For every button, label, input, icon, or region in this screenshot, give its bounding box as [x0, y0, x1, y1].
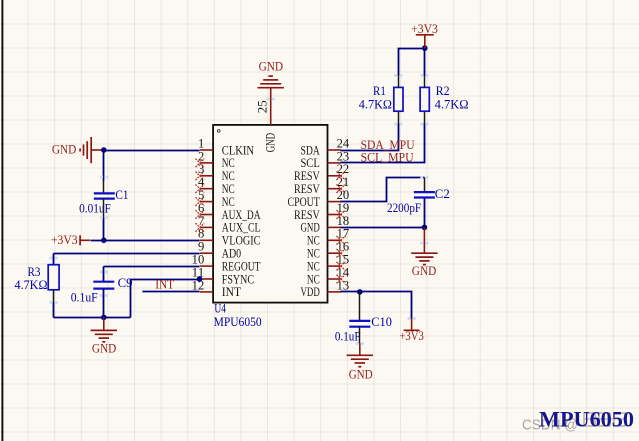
wire REGOUT pin 10 to C9 — [104, 267, 200, 282]
node junction VDD/C10 — [357, 289, 363, 295]
no-connect X pin 7 — [196, 223, 205, 232]
IC U4 MPU6050 body — [213, 125, 327, 303]
svg-text:C2: C2 — [435, 187, 450, 201]
pin name NC (pin 14) — [307, 271, 320, 286]
pin number 12 — [192, 278, 205, 292]
pin name NC (pin 3) — [222, 168, 235, 183]
value 0.01uF — [79, 201, 111, 215]
pin number 5 — [198, 188, 204, 202]
pin name RESV (pin 19) — [294, 207, 320, 222]
value 4.7KΩ (R3) — [15, 278, 48, 292]
pin number 2 — [198, 149, 204, 163]
pin name SDA (pin 24) — [300, 142, 320, 157]
net label GND (bottom center) — [349, 368, 373, 382]
wire GND pin 18 — [341, 227, 425, 229]
no-connect X pin 3 — [196, 172, 205, 181]
pin 9 stub — [200, 252, 213, 254]
pin name VLOGIC (pin 8) — [222, 233, 261, 248]
ground GND (bottom center) — [347, 355, 373, 366]
pin 16 stub — [328, 252, 341, 254]
svg-text:23: 23 — [337, 149, 350, 163]
net label +3V3 (top) — [411, 22, 438, 36]
value 0.1uF (C9) — [71, 290, 98, 304]
wire R2 top lead — [424, 49, 426, 88]
no-connect X pin 21 — [337, 184, 346, 193]
pin 8 stub — [200, 239, 213, 241]
svg-text:+3V3: +3V3 — [51, 233, 78, 247]
no-connect X pin 19 — [337, 210, 346, 219]
wire C2 bottom lead — [424, 199, 426, 228]
net label +3V3 (left) — [51, 233, 78, 247]
pin 3 stub — [200, 175, 213, 177]
power +3V3 (top) — [416, 35, 434, 48]
pin name GND (pin 18) — [300, 220, 319, 235]
pin number 7 — [198, 214, 204, 228]
net label INT — [155, 278, 174, 292]
wire SCL pin 23 — [341, 112, 425, 163]
no-connect X pin 5 — [196, 197, 205, 206]
designator R2 — [436, 84, 450, 98]
pin name AUX_CL (pin 7) — [222, 220, 261, 235]
pin name NC (pin 4) — [222, 181, 235, 196]
value 4.7KΩ (R2) — [435, 97, 469, 111]
svg-text:0.1uF: 0.1uF — [71, 290, 98, 304]
pin 21 stub — [328, 188, 341, 190]
pin number 25 (vertical) — [256, 100, 270, 113]
svg-text:GND: GND — [262, 133, 277, 152]
pin number 13 — [337, 278, 350, 292]
pin name NC (pin 15) — [307, 258, 320, 273]
pin 17 stub — [328, 239, 341, 241]
no-connect X pin 15 — [337, 262, 346, 271]
designator R1 — [373, 84, 386, 98]
pin 15 stub — [328, 265, 341, 267]
svg-text:+3V3: +3V3 — [399, 329, 423, 343]
svg-text:GND: GND — [349, 368, 373, 382]
wire pin1 CLKIN — [104, 150, 200, 152]
svg-text:0.1uF: 0.1uF — [335, 329, 361, 343]
wire INT pin 12 — [143, 291, 200, 293]
wire C1 top lead — [103, 151, 105, 194]
pin 7 stub — [200, 226, 213, 228]
no-connect X pin 14 — [337, 275, 346, 284]
pin number 4 — [198, 175, 205, 189]
svg-text:4.7KΩ: 4.7KΩ — [15, 278, 48, 292]
svg-text:4.7KΩ: 4.7KΩ — [359, 97, 392, 111]
svg-text:10: 10 — [192, 253, 205, 267]
value 0.1uF (C10) — [335, 329, 361, 343]
svg-text:24: 24 — [337, 136, 350, 150]
title MPU6050 — [539, 407, 634, 432]
net label +3V3 (bottom) — [399, 329, 423, 343]
node junction C2/GND — [422, 225, 428, 231]
node junction FSYNC — [197, 276, 203, 282]
pin number 8 — [198, 227, 204, 241]
pin number 1 — [198, 136, 204, 150]
pin 23 stub — [328, 162, 341, 164]
pin 6 stub — [200, 214, 213, 216]
pin 25 stub — [270, 88, 272, 125]
svg-text:C10: C10 — [371, 315, 392, 329]
svg-text:SCL_MPU: SCL_MPU — [361, 151, 414, 165]
svg-text:VDD: VDD — [300, 284, 319, 299]
svg-text:INT: INT — [155, 278, 174, 292]
svg-text:GND: GND — [52, 142, 76, 156]
wire ground rail — [54, 317, 131, 319]
pin number 22 — [337, 162, 350, 176]
value 4.7KΩ (R1) — [359, 97, 392, 111]
net label SCL_MPU — [361, 151, 414, 165]
capacitor C9 — [93, 282, 114, 289]
svg-text:+3V3: +3V3 — [411, 22, 438, 36]
pin number 23 — [337, 149, 350, 163]
no-connect X pin 2 — [196, 159, 205, 168]
no-connect X pin 22 — [337, 172, 346, 181]
ground GND (bottom left) — [103, 317, 105, 330]
node junction rail/C9 — [101, 315, 107, 321]
pin number 19 — [337, 201, 350, 215]
pin name NC (pin 5) — [222, 194, 235, 209]
pin number 16 — [337, 240, 350, 254]
wire FSYNC pin 11 — [131, 280, 200, 318]
svg-text:GND: GND — [412, 264, 437, 278]
pin name FSYNC (pin 11) — [222, 271, 254, 286]
ground GND (left, sideways) — [80, 137, 104, 163]
pin 13 stub — [328, 291, 341, 293]
designator R3 — [28, 265, 41, 279]
node junction C1/+3V3 — [101, 238, 107, 244]
svg-text:1: 1 — [198, 136, 204, 150]
svg-text:R1: R1 — [373, 84, 386, 98]
pin number 17 — [337, 227, 350, 241]
pin name SCL (pin 23) — [300, 155, 319, 170]
pin 22 stub — [328, 175, 341, 177]
pin number 9 — [198, 240, 204, 254]
pin name RESV (pin 21) — [294, 181, 320, 196]
pin 2 stub — [200, 162, 213, 164]
pin name CPOUT (pin 20) — [288, 194, 320, 209]
svg-text:MPU6050: MPU6050 — [539, 407, 634, 432]
pin number 6 — [198, 201, 204, 215]
pin 14 stub — [328, 278, 341, 280]
wire AD0 pin 9 to R3 — [54, 254, 200, 265]
wire C10 top lead — [359, 292, 361, 321]
pin name AD0 (pin 9) — [222, 246, 241, 261]
wire VLOGIC pin 8 — [91, 240, 200, 242]
pin number 18 — [337, 214, 350, 228]
net label GND (mid right) — [412, 264, 437, 278]
pin 18 stub — [328, 226, 341, 228]
wire C9 bottom lead — [103, 289, 105, 318]
power +3V3 (bottom) — [404, 318, 420, 330]
pin number 15 — [337, 253, 350, 267]
pin number 3 — [198, 162, 204, 176]
wire C10 bottom lead — [359, 327, 361, 356]
svg-text:2200pF: 2200pF — [387, 201, 421, 215]
designator C2 — [435, 187, 450, 201]
pin 10 stub — [200, 265, 213, 267]
svg-text:9: 9 — [198, 240, 204, 254]
no-connect X pin 6 — [196, 210, 205, 219]
pin name AUX_DA (pin 6) — [222, 207, 261, 222]
power +3V3 (left) — [80, 235, 90, 245]
svg-text:R2: R2 — [436, 84, 450, 98]
pin number 20 — [337, 188, 350, 202]
pin 24 stub — [328, 149, 341, 151]
designator C9 — [118, 276, 133, 290]
pin name NC (pin 17) — [307, 233, 320, 248]
ground GND (mid right) — [423, 227, 425, 253]
pin number 11 — [192, 265, 205, 279]
wire C1 bottom lead — [103, 199, 105, 241]
wire CPOUT pin 20 to C2 — [341, 178, 425, 202]
svg-text:MPU6050: MPU6050 — [214, 315, 262, 329]
no-connect X pin 17 — [337, 236, 346, 245]
pin name INT (pin 12) — [222, 284, 241, 299]
pin name NC (pin 2) — [222, 155, 235, 170]
pin 19 stub — [328, 214, 341, 216]
capacitor C10 — [349, 321, 370, 327]
svg-text:4.7KΩ: 4.7KΩ — [435, 97, 469, 111]
wire R1 top lead — [399, 49, 425, 88]
svg-text:GND: GND — [92, 341, 116, 355]
pin 20 stub — [328, 201, 341, 203]
pin 11 stub — [200, 278, 213, 280]
pin name VDD (pin 13) — [300, 284, 319, 299]
net label GND (bottom left) — [92, 341, 116, 355]
value 2200pF — [387, 201, 421, 215]
capacitor C1 — [94, 193, 115, 198]
designator C10 — [371, 315, 392, 329]
pin 12 stub — [200, 291, 213, 293]
designator U4 — [214, 301, 226, 315]
resistor R2 — [420, 87, 429, 111]
svg-text:INT: INT — [222, 284, 241, 299]
resistor R3 — [48, 265, 59, 290]
net label GND (left) — [52, 142, 76, 156]
pin name RESV (pin 22) — [294, 168, 320, 183]
pin name CLKIN (pin 1) — [222, 142, 255, 157]
watermark CSDN — [522, 413, 625, 433]
pin name GND (pin 25, vertical) — [262, 133, 277, 152]
pin number 14 — [337, 265, 350, 279]
no-connect X pin 16 — [337, 249, 346, 258]
pin 1 stub — [200, 149, 213, 151]
no-connect X pin 4 — [196, 184, 205, 193]
resistor R1 — [394, 87, 403, 111]
wire SDA pin 24 — [341, 112, 399, 151]
svg-text:C1: C1 — [115, 188, 128, 202]
pin name NC (pin 16) — [307, 246, 320, 261]
pin number 24 — [337, 136, 350, 150]
value MPU6050 — [214, 315, 262, 329]
svg-text:25: 25 — [256, 100, 270, 113]
net label GND (top) — [259, 60, 284, 74]
svg-text:U4: U4 — [214, 301, 226, 315]
pin 4 stub — [200, 188, 213, 190]
wire VDD pin 13 — [341, 292, 412, 319]
net label SDA_MPU — [361, 138, 415, 152]
node junction R1/R2/+3V3 — [422, 45, 428, 51]
sheet border — [1, 0, 3, 441]
designator C1 — [115, 188, 128, 202]
capacitor C2 — [414, 192, 435, 197]
pin 5 stub — [200, 201, 213, 203]
pin name REGOUT (pin 10) — [222, 258, 261, 273]
svg-text:GND: GND — [259, 60, 284, 74]
node hotspot marks — [50, 74, 429, 345]
svg-text:SDA_MPU: SDA_MPU — [361, 138, 415, 152]
node junction CLKIN/GND — [101, 147, 107, 153]
pin number 21 — [337, 175, 350, 189]
pin number 10 — [192, 253, 205, 267]
svg-text:0.01uF: 0.01uF — [79, 201, 111, 215]
wire R3 bottom lead — [53, 290, 55, 318]
ground GND (top, above pin 25) — [258, 76, 284, 88]
